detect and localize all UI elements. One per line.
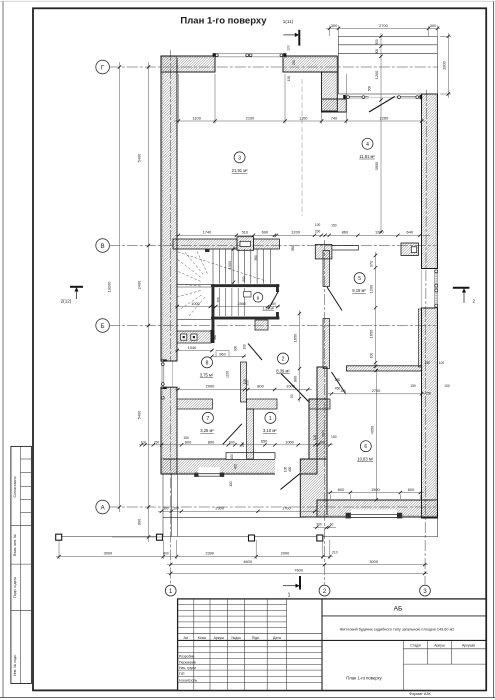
svg-text:150: 150 [340, 389, 346, 393]
duct block right with flue [401, 243, 419, 255]
svg-text:4050: 4050 [370, 425, 375, 434]
pilaster right wall [418, 309, 421, 367]
svg-text:100: 100 [217, 297, 221, 303]
svg-text:1560: 1560 [237, 301, 246, 306]
dimension chain bottom 3 [167, 568, 428, 576]
dimension chain bottom 2 [167, 559, 428, 566]
WC room9 top wall [211, 284, 279, 287]
svg-text:50: 50 [290, 394, 294, 398]
svg-text:3950: 3950 [374, 161, 379, 170]
svg-text:2000: 2000 [281, 551, 290, 556]
svg-text:250: 250 [426, 392, 432, 396]
svg-text:№док: №док [231, 636, 241, 640]
door jamb marks stair entry [205, 249, 210, 252]
svg-text:300: 300 [430, 23, 437, 28]
svg-text:Формат А3К: Формат А3К [409, 692, 431, 696]
svg-text:Инв. № подл.: Инв. № подл. [13, 654, 17, 676]
room 9 label [253, 293, 275, 311]
svg-text:Нач. групи: Нач. групи [179, 666, 196, 670]
wall axis В mid part [254, 239, 280, 249]
title block stage labels [410, 643, 475, 647]
entrance pier wall on axis 2 [300, 459, 327, 517]
svg-text:Підп.: Підп. [252, 636, 260, 640]
svg-text:1: 1 [269, 416, 272, 422]
svg-text:1100: 1100 [225, 371, 229, 378]
svg-text:10,83 м²: 10,83 м² [357, 456, 374, 461]
svg-text:1100: 1100 [299, 115, 308, 120]
svg-text:21,91 м²: 21,91 м² [232, 168, 249, 173]
svg-text:4: 4 [366, 142, 369, 148]
axis Б line [109, 325, 438, 327]
kitchen wall stub [211, 330, 215, 343]
room 3 label [232, 152, 249, 173]
wall right exterior lower segment [422, 308, 438, 518]
svg-text:1000: 1000 [191, 301, 200, 306]
svg-text:600: 600 [229, 440, 235, 444]
axis bubble 2 [319, 585, 330, 596]
svg-text:150: 150 [331, 435, 337, 439]
svg-text:900: 900 [234, 346, 238, 352]
svg-text:1100: 1100 [193, 115, 202, 120]
counter bar at hall entry [332, 246, 359, 250]
kitchen stove burners [181, 334, 197, 340]
svg-text:900: 900 [293, 375, 298, 382]
svg-text:Б: Б [101, 324, 105, 330]
svg-text:2700: 2700 [379, 23, 388, 28]
svg-text:1200: 1200 [369, 284, 374, 293]
WC room9 left wall [212, 284, 215, 343]
axis bubble 1 [165, 585, 176, 596]
svg-text:3000: 3000 [104, 551, 113, 556]
window W3 right wall glazing [422, 270, 438, 308]
stair landing edge lines [177, 284, 211, 319]
entrance door leaf [281, 474, 301, 490]
svg-text:8: 8 [206, 360, 209, 366]
svg-text:Аркушів: Аркушів [462, 643, 475, 647]
svg-text:380: 380 [254, 255, 258, 261]
title block signature labels [179, 655, 197, 683]
svg-text:5400: 5400 [137, 410, 142, 419]
wall step between rooms 3 and 4 [322, 72, 338, 111]
room 8 label [200, 357, 214, 378]
wall axis В left part [173, 239, 237, 249]
wall top exterior right segment [283, 56, 337, 72]
room1 door leaf [281, 374, 309, 402]
title block stage cells [403, 640, 486, 690]
partition room6 top [347, 366, 422, 371]
svg-text:8,39 м²: 8,39 м² [276, 369, 290, 374]
wall left exterior upper segment [161, 56, 177, 361]
svg-text:450: 450 [319, 440, 325, 444]
terrace post 4 [317, 535, 323, 541]
svg-text:960: 960 [219, 351, 226, 356]
svg-text:1740: 1740 [203, 230, 212, 235]
kitchen door leaf [248, 344, 262, 361]
WC room9 right wall lower [276, 312, 279, 320]
window W1 end caps [213, 53, 287, 57]
svg-text:250: 250 [241, 442, 245, 448]
svg-text:4600: 4600 [243, 559, 252, 564]
svg-text:1500: 1500 [371, 487, 380, 492]
svg-text:2100: 2100 [246, 115, 255, 120]
svg-text:2: 2 [282, 357, 285, 363]
svg-text:100: 100 [243, 344, 247, 350]
svg-text:5: 5 [358, 276, 361, 282]
dimension chain stairs [175, 297, 280, 308]
svg-text:3,75 м²: 3,75 м² [200, 373, 214, 378]
axis bubble Б [96, 319, 110, 333]
axis 2 line [324, 240, 326, 585]
svg-text:9,19 м²: 9,19 м² [352, 288, 366, 293]
svg-text:1040: 1040 [188, 345, 197, 350]
svg-text:250: 250 [335, 378, 341, 382]
wall top exterior left segment [161, 56, 215, 72]
svg-text:1000: 1000 [286, 384, 295, 389]
svg-text:300: 300 [375, 39, 379, 45]
niche ledge above bottom wall [226, 453, 275, 460]
svg-text:860: 860 [342, 230, 349, 235]
dimension chain room 5 vertical [369, 252, 378, 368]
svg-text:Кільк: Кільк [198, 636, 207, 640]
svg-text:100: 100 [229, 481, 233, 487]
window W1 mullion dots [215, 54, 282, 57]
dimension chain above axis В wall [175, 223, 430, 237]
washbasin room9 [244, 292, 252, 298]
title block code АБ [322, 615, 486, 617]
wall room6 left (axis 2) [317, 367, 327, 459]
axis Г line [109, 66, 438, 68]
axis 1 line [170, 50, 172, 361]
svg-text:1000: 1000 [227, 260, 232, 269]
svg-text:200: 200 [315, 230, 321, 234]
page outer border top [0, 0, 495, 2]
svg-text:1700: 1700 [282, 506, 291, 511]
svg-text:1650: 1650 [369, 329, 374, 338]
svg-text:250: 250 [292, 60, 296, 66]
partition rooms 8/2 [241, 362, 247, 402]
wall bottom-right exterior (room 6) [317, 500, 438, 517]
stairs winder rays [177, 249, 266, 316]
svg-text:1: 1 [288, 593, 291, 599]
terrace post 1 [56, 534, 62, 540]
ventilation duct block in В wall [237, 237, 254, 251]
svg-text:13200: 13200 [107, 281, 112, 293]
wall left exterior lower segment [161, 387, 177, 474]
wall bottom-left exterior [161, 459, 317, 474]
room5 door leaf [327, 287, 342, 311]
WC room9 right wall upper [276, 284, 279, 292]
dimension chain below top wall [174, 74, 425, 124]
dimension chain rooms 8 and 2 [175, 371, 312, 398]
svg-text:400: 400 [288, 467, 292, 473]
terrace post 3 [249, 535, 255, 541]
axis 3 line [425, 90, 427, 585]
partition corridor right [309, 399, 330, 409]
dimension chain terrace [158, 506, 336, 529]
svg-text:150: 150 [287, 76, 291, 82]
svg-text:Подп. и дата: Подп. и дата [13, 577, 17, 598]
svg-text:300: 300 [316, 522, 322, 526]
svg-text:2390: 2390 [205, 551, 214, 556]
svg-text:1500: 1500 [321, 430, 325, 438]
partition room5 lower [323, 319, 330, 369]
room 5 label [352, 273, 366, 293]
window W5 room6 opening [346, 510, 403, 519]
svg-text:Дата: Дата [273, 636, 281, 640]
room 1 label [263, 412, 277, 433]
svg-text:3000: 3000 [369, 559, 378, 564]
wall axis В right block [315, 245, 332, 259]
svg-text:100: 100 [313, 435, 317, 441]
dimension chain room 6 [327, 369, 424, 502]
misc small dimensions [213, 60, 444, 487]
axis А line [109, 506, 438, 508]
svg-text:300: 300 [375, 49, 379, 55]
dimension chain porch vertical [374, 33, 383, 234]
svg-text:600: 600 [408, 487, 415, 492]
WC room9 bottom wall [211, 317, 279, 320]
dimension chain bottom rooms [139, 435, 337, 448]
svg-text:1,53 м²: 1,53 м² [262, 307, 274, 311]
svg-text:380: 380 [213, 335, 217, 341]
svg-text:500: 500 [242, 276, 246, 282]
svg-text:1200: 1200 [291, 230, 300, 235]
partition corridor left [177, 399, 212, 409]
svg-text:Розробив: Розробив [179, 655, 195, 659]
title block upper row lines [178, 605, 287, 628]
svg-text:1000: 1000 [285, 439, 294, 444]
glazed front under porch [344, 96, 422, 98]
svg-text:Зм: Зм [183, 636, 188, 640]
title block header row lines [178, 633, 322, 635]
axis bubble Г [96, 60, 110, 74]
svg-text:1(11): 1(11) [283, 19, 294, 24]
beam projection line rooms 3-4 [301, 79, 303, 216]
svg-text:Стадія: Стадія [410, 643, 421, 647]
svg-text:150: 150 [183, 436, 189, 440]
page outer border left [2, 2, 4, 699]
svg-text:400: 400 [234, 464, 238, 470]
svg-text:Перевірив: Перевірив [179, 660, 196, 664]
window W4 bottom-left wall opening [194, 467, 224, 477]
room 4 label [359, 138, 375, 159]
dimension chain left inner [112, 62, 163, 542]
partition corridor mid [247, 399, 278, 409]
svg-text:380: 380 [291, 246, 295, 252]
title block header labels [183, 636, 280, 640]
window W3 mullion dots [435, 270, 438, 307]
axis bubble 3 [420, 585, 431, 596]
entrance door opening in bottom wall [275, 458, 300, 474]
svg-text:100: 100 [370, 353, 374, 359]
stairs treads [213, 249, 271, 284]
axis bubble А [96, 500, 110, 514]
svg-text:500: 500 [368, 86, 372, 92]
svg-text:300: 300 [173, 507, 179, 511]
svg-text:250: 250 [154, 440, 160, 444]
svg-text:2000: 2000 [206, 384, 215, 389]
svg-text:100: 100 [230, 454, 234, 460]
left strip box Согласовано [11, 446, 32, 683]
lower stair flight treads [219, 288, 244, 316]
room7 door leaf [223, 424, 242, 445]
dimension chain porch right [440, 33, 451, 98]
svg-text:100: 100 [286, 45, 290, 51]
svg-text:1800: 1800 [442, 60, 447, 69]
dimension chain porch top [326, 23, 440, 36]
terrace outline left [57, 474, 439, 537]
partition room5 upper [323, 251, 330, 287]
svg-text:АБ: АБ [394, 605, 404, 612]
svg-text:1200: 1200 [375, 230, 384, 235]
svg-text:3: 3 [238, 155, 241, 161]
svg-text:7600: 7600 [294, 568, 303, 573]
svg-text:План 1-го поверху: План 1-го поверху [346, 675, 382, 680]
svg-text:150: 150 [331, 224, 337, 228]
svg-text:800: 800 [257, 384, 264, 389]
title block main divider [321, 599, 323, 691]
svg-text:300: 300 [331, 23, 338, 28]
svg-text:300: 300 [270, 302, 276, 306]
svg-text:А: А [101, 505, 105, 511]
svg-text:Взам. инв. №: Взам. инв. № [13, 534, 17, 556]
svg-text:2(12): 2(12) [61, 299, 72, 304]
kitchen counter [177, 331, 211, 343]
dimension chain hall vertical [293, 310, 302, 402]
svg-text:3,10 м²: 3,10 м² [263, 428, 277, 433]
svg-text:600: 600 [185, 439, 192, 444]
title block outline [178, 599, 486, 691]
svg-text:5400: 5400 [137, 153, 142, 162]
svg-text:Согласовано: Согласовано [13, 476, 17, 497]
left strip rotated labels [13, 476, 17, 675]
svg-text:950: 950 [245, 380, 249, 386]
room 6 label [357, 441, 374, 462]
svg-text:Н.контроль: Н.контроль [179, 679, 197, 683]
svg-text:150: 150 [410, 384, 416, 388]
svg-text:7: 7 [207, 416, 210, 422]
dimension chain bottom 1 [56, 540, 338, 559]
svg-text:Аркуш: Аркуш [434, 643, 445, 647]
svg-text:2300: 2300 [215, 506, 224, 511]
svg-text:210: 210 [332, 550, 338, 554]
title block project name [322, 639, 486, 641]
dimension chain left outer [107, 62, 122, 512]
section marker 2 right [453, 288, 476, 304]
dimension chain kitchen [175, 345, 246, 358]
room 7 label [200, 412, 214, 433]
wall outer-face render layer lines [162, 57, 437, 516]
window W2 end caps [161, 359, 167, 389]
svg-text:800: 800 [208, 439, 215, 444]
section marker 1(11) top [283, 19, 299, 51]
svg-text:100: 100 [315, 223, 321, 227]
left strip outline [11, 446, 32, 683]
svg-text:370: 370 [369, 260, 374, 267]
svg-text:740: 740 [331, 115, 338, 120]
WC door leaf [269, 291, 279, 309]
page outer border right [493, 2, 495, 699]
page outer border bottom [0, 697, 495, 699]
window W2 left wall glazing [162, 362, 172, 387]
axis bubble В [96, 239, 110, 253]
svg-text:510: 510 [242, 230, 249, 235]
svg-text:640: 640 [407, 230, 414, 235]
svg-text:1650: 1650 [293, 333, 298, 342]
svg-text:Аркуш: Аркуш [214, 636, 225, 640]
svg-text:11,81 м²: 11,81 м² [359, 154, 375, 159]
svg-text:400: 400 [163, 552, 169, 556]
glazed front end caps [343, 95, 422, 99]
room6 door leaf [332, 372, 346, 394]
svg-text:900: 900 [137, 518, 142, 525]
svg-text:100: 100 [284, 467, 288, 473]
wall room4 top-left corner [322, 99, 347, 112]
window W1 top wall glazing [215, 54, 284, 57]
dimension chain stairs vertical [227, 246, 295, 287]
porch outline [338, 36, 437, 94]
svg-text:3,25 м²: 3,25 м² [200, 428, 214, 433]
svg-text:300: 300 [163, 507, 169, 511]
WC corner pier [255, 320, 268, 330]
svg-text:250: 250 [425, 361, 431, 365]
section marker 2 left [61, 287, 83, 304]
svg-text:2: 2 [473, 299, 476, 304]
terrace post 2 [157, 534, 163, 540]
window W2 mullion dots [161, 363, 164, 399]
svg-text:6: 6 [364, 444, 367, 450]
title block column lines [194, 599, 287, 691]
svg-text:ГІП: ГІП [179, 672, 185, 676]
svg-text:100: 100 [444, 384, 450, 388]
svg-text:В: В [101, 244, 105, 250]
svg-text:2400: 2400 [137, 280, 142, 289]
svg-text:1200: 1200 [374, 70, 379, 79]
dimension chain corridor room6 top [328, 378, 450, 396]
svg-text:600: 600 [338, 487, 345, 492]
svg-text:Житловий будинок садибного тип: Житловий будинок садибного типу загально… [340, 628, 455, 632]
section marker 1 bottom [283, 576, 300, 599]
glazed front mullion dots [347, 96, 419, 99]
svg-text:650: 650 [261, 439, 268, 444]
svg-text:690: 690 [262, 230, 269, 235]
room 2 label [276, 353, 290, 374]
svg-text:450: 450 [335, 387, 341, 391]
svg-text:100: 100 [141, 440, 147, 444]
partition rooms 7/1 [247, 409, 254, 459]
title block lower row lines [178, 647, 322, 683]
svg-text:План 1-го поверху: План 1-го поверху [180, 16, 267, 27]
svg-text:100: 100 [439, 361, 445, 365]
wall entry right of room1 [309, 399, 327, 459]
axis В line [109, 245, 438, 247]
entry door leaf at porch [369, 97, 395, 113]
wall right exterior upper segment [422, 94, 438, 269]
